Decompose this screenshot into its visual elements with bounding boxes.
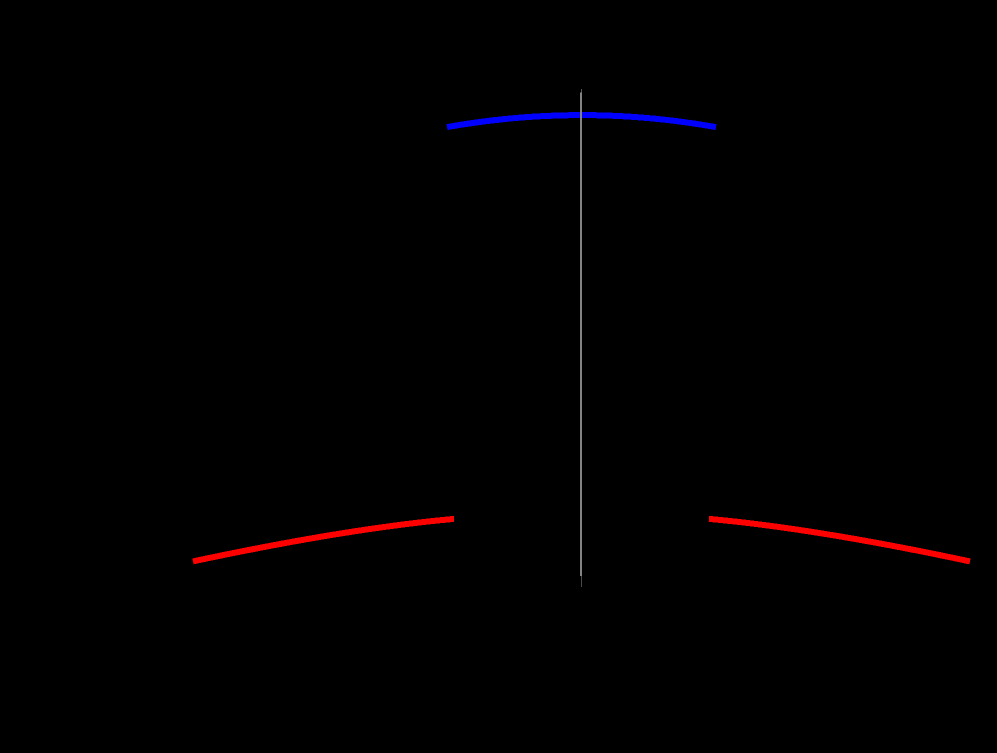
gray vertical center line	[580, 93, 582, 577]
red left curve	[193, 519, 454, 562]
blue curve	[447, 115, 716, 127]
gray vertical center line bottom dim segment	[580, 576, 582, 587]
gray vertical center line top tip	[580, 89, 582, 92]
red right curve	[709, 519, 970, 562]
